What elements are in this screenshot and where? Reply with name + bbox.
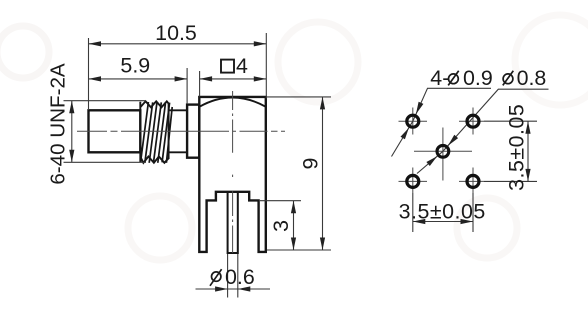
- dim 10.5 line: [89, 43, 267, 45]
- crosshair hole center: [414, 150, 472, 152]
- svg-text:3.5±0.05: 3.5±0.05: [505, 104, 529, 191]
- text dia 0.6 : diameter symbol: [210, 269, 222, 286]
- thread dim arrows: [69, 101, 74, 114]
- leader 4-dia0.9: [392, 88, 492, 156]
- dimension thin lines right view: [392, 88, 549, 232]
- dim 9 extension bottom: [267, 249, 331, 251]
- text dia0.8: [503, 71, 514, 86]
- thread dim extension top: [64, 100, 147, 102]
- ext lines horizontal 3.5 dim: [412, 193, 414, 232]
- barrel: [89, 110, 141, 152]
- dim 9 line: [322, 97, 324, 250]
- crosshair hole top-left: [399, 120, 428, 122]
- hole bottom-right: [467, 175, 479, 187]
- holes: [407, 115, 479, 187]
- dim 10.5 arrows: [89, 41, 102, 46]
- thread dim extension bottom: [64, 161, 147, 163]
- dim line vertical 3.5: [527, 121, 529, 181]
- ring washer: [187, 105, 199, 158]
- arrowheads right view: [401, 102, 531, 224]
- body block outline: [199, 97, 265, 252]
- pin centerline vertical: [232, 91, 234, 253]
- svg-text:0.9: 0.9: [463, 66, 493, 90]
- text square 4: [221, 60, 234, 73]
- dim square4 arrows: [200, 76, 213, 81]
- dim 3 extension top: [260, 200, 301, 202]
- watermark rings: [0, 15, 588, 260]
- crosshair hole bottom-right: [459, 180, 484, 182]
- arrows at hole center (0.8): [448, 135, 458, 146]
- dim 5.9 line: [89, 78, 188, 80]
- thread helix flank lines: [141, 102, 173, 163]
- dim 0.6 extension lines: [227, 254, 229, 298]
- arrowheads left view: [69, 41, 325, 291]
- hole center: [437, 145, 449, 157]
- vertical 3.5 arrows: [525, 121, 530, 134]
- dim 5.9 arrows: [89, 76, 102, 81]
- svg-text:6-40 UNF-2A: 6-40 UNF-2A: [47, 63, 70, 185]
- svg-text:3: 3: [269, 220, 293, 232]
- svg-text:5.9: 5.9: [120, 53, 150, 77]
- svg-text:0.6: 0.6: [225, 265, 255, 289]
- svg-text:9: 9: [299, 158, 323, 170]
- dim 10.5 extension right: [265, 33, 267, 99]
- body top arc: [199, 98, 265, 107]
- hole centerlines: [399, 108, 485, 194]
- dim 9 extension top: [267, 96, 331, 98]
- dim 10.5 extension left: [88, 38, 90, 110]
- svg-text:10.5: 10.5: [155, 21, 197, 45]
- dim 3 arrows: [291, 201, 296, 214]
- svg-text:0.8: 0.8: [517, 66, 547, 90]
- center pin: [228, 192, 238, 253]
- dim 0.6 arrows (outside): [215, 286, 228, 291]
- plain section after thread: [169, 110, 188, 152]
- thread dim line 6-40: [71, 101, 73, 163]
- dim 0.6 line: [196, 288, 271, 290]
- thread end edge: [168, 104, 170, 160]
- dim line horizontal 3.5: [413, 221, 473, 223]
- arrows at hole top-left (0.9): [416, 102, 424, 115]
- leader dia0.8: [417, 89, 549, 173]
- dim 9 arrows: [320, 97, 325, 110]
- hole bottom-left: [407, 175, 419, 187]
- dim 3 line: [293, 201, 295, 250]
- dimension lines (thin): [64, 33, 332, 298]
- dim 5.9 extension right: [186, 68, 188, 104]
- svg-text:4-: 4-: [430, 66, 449, 90]
- ext lines vertical 3.5 dim: [484, 120, 537, 122]
- horizontal 3.5 arrows: [413, 219, 426, 224]
- crosshair hole top-right: [459, 120, 484, 122]
- svg-text:4: 4: [236, 54, 248, 78]
- dim square4 line: [200, 78, 267, 80]
- thread outline: [140, 101, 168, 163]
- axis centerline horizontal: [77, 130, 285, 132]
- hole top-left: [407, 115, 419, 127]
- dim square4 extension left: [199, 71, 201, 97]
- svg-text:3.5±0.05: 3.5±0.05: [399, 200, 486, 224]
- crosshair hole bottom-left: [399, 180, 428, 182]
- hole top-right: [467, 115, 479, 127]
